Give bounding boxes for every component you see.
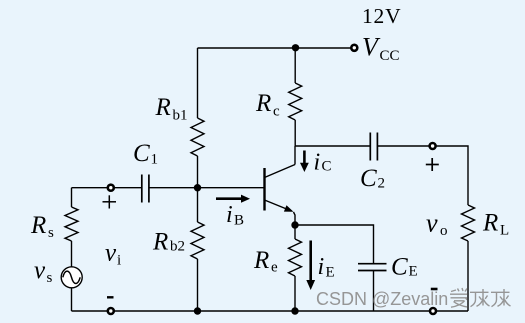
watermark glyph hui2 xyxy=(491,289,511,307)
source vs circle xyxy=(61,267,82,288)
wire Rb1 bottom to base node xyxy=(197,156,199,188)
svg-text:v: v xyxy=(105,240,117,267)
watermark glyph hui1 xyxy=(470,289,490,307)
arrow iC shaft xyxy=(303,151,306,164)
wire Rc top segment xyxy=(294,48,296,83)
wire collector vertical xyxy=(294,146,296,165)
wire Rb2 bottom segment xyxy=(197,259,199,311)
wire Rs column top xyxy=(71,188,73,207)
capacitor C2 plates xyxy=(370,133,377,161)
terminal output plus open circle xyxy=(430,143,436,149)
svg-text:R: R xyxy=(155,94,171,121)
wire collector tee to C2 xyxy=(295,145,370,147)
resistor Re xyxy=(289,239,302,276)
terminal Vcc open circle xyxy=(351,45,357,51)
svg-text:R: R xyxy=(30,212,46,239)
wire CE to bottom rail xyxy=(373,271,375,312)
svg-text:b2: b2 xyxy=(170,239,185,255)
wire Rb1 top segment xyxy=(197,48,199,118)
svg-text:C: C xyxy=(360,165,377,192)
svg-text:E: E xyxy=(326,265,335,281)
svg-text:s: s xyxy=(47,270,53,286)
sign plus input xyxy=(103,195,117,208)
wire Rb2 top segment xyxy=(197,188,199,222)
capacitor CE plates xyxy=(358,264,387,271)
svg-text:E: E xyxy=(409,264,418,280)
svg-text:v: v xyxy=(34,257,46,284)
terminal input plus open circle xyxy=(108,185,114,191)
svg-text:i: i xyxy=(318,254,325,280)
terminal input minus open circle xyxy=(108,308,114,314)
svg-text:L: L xyxy=(500,223,509,239)
svg-text:b1: b1 xyxy=(173,108,188,124)
resistor Rb2 xyxy=(191,222,204,259)
wire C1 to transistor base xyxy=(149,187,265,189)
svg-text:C: C xyxy=(322,159,332,175)
transistor Q1 base bar xyxy=(263,168,265,211)
resistor RL xyxy=(462,205,475,241)
capacitor C1 plates xyxy=(142,175,149,203)
svg-text:2: 2 xyxy=(378,176,386,192)
arrow iE head xyxy=(306,280,315,290)
resistor Rb1 xyxy=(191,118,204,156)
sign plus output xyxy=(426,158,439,171)
terminal output minus open circle xyxy=(430,308,436,314)
node base junction dot xyxy=(194,184,201,191)
svg-text:v: v xyxy=(426,209,438,238)
wire C2 to RL column xyxy=(377,146,468,205)
svg-text:e: e xyxy=(271,260,278,276)
svg-text:V: V xyxy=(362,33,381,62)
wire RL bottom segment xyxy=(467,241,469,311)
resistor Rc xyxy=(289,83,302,120)
arrow iE shaft xyxy=(309,241,312,281)
svg-text:s: s xyxy=(48,225,54,241)
svg-text:c: c xyxy=(273,104,280,120)
svg-text:R: R xyxy=(255,90,271,117)
transistor Q1 emitter arm xyxy=(265,200,292,211)
source vs sine wave xyxy=(63,271,80,283)
wire Re bottom segment xyxy=(294,276,296,311)
svg-text:R: R xyxy=(253,247,269,274)
wire emitter node to CE branch xyxy=(295,225,374,264)
wire input left column to C1 xyxy=(72,187,142,189)
svg-text:i: i xyxy=(117,253,121,269)
transistor Q1 collector arm xyxy=(265,165,296,178)
node Re bottom junction dot xyxy=(291,307,298,314)
wire Re top segment xyxy=(294,225,296,239)
svg-text:B: B xyxy=(234,213,244,229)
svg-text:CC: CC xyxy=(380,48,400,64)
transistor Q1 emitter arrowhead xyxy=(284,205,294,212)
sign minus output xyxy=(431,288,438,291)
svg-text:C: C xyxy=(391,254,408,281)
svg-text:C: C xyxy=(133,140,150,167)
svg-text:i: i xyxy=(314,150,321,176)
svg-text:CSDN @Zevalin: CSDN @Zevalin xyxy=(316,289,448,309)
wire emitter to node xyxy=(294,212,296,225)
wire bottom rail xyxy=(72,310,469,312)
resistor Rs xyxy=(65,207,78,241)
arrow iB head xyxy=(241,195,250,203)
arrow iB shaft xyxy=(216,197,242,200)
arrow iC head xyxy=(300,163,309,172)
svg-text:i: i xyxy=(226,202,233,228)
wire top rail Vcc xyxy=(198,47,352,49)
svg-text:1: 1 xyxy=(151,152,159,168)
svg-text:R: R xyxy=(152,229,168,256)
wire Rc bottom to collector tee xyxy=(294,120,296,146)
node Rb2 bottom junction dot xyxy=(194,307,201,314)
svg-text:R: R xyxy=(482,210,498,237)
sign minus input xyxy=(107,296,114,298)
wire vs to bottom rail xyxy=(71,288,73,311)
node emitter junction dot xyxy=(291,221,298,228)
svg-text:12V: 12V xyxy=(362,4,401,28)
watermark glyph ai xyxy=(450,288,468,307)
wire Rs to vs xyxy=(71,241,73,267)
svg-text:o: o xyxy=(440,223,448,239)
junction dot collector top xyxy=(292,44,299,51)
